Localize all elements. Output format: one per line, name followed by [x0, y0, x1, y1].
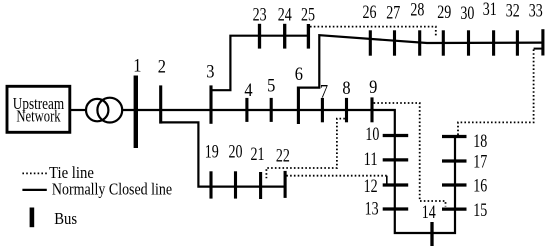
svg-text:33: 33 [529, 2, 543, 22]
main feeder line buses 1-9 [122, 110, 455, 233]
bus 27 [393, 30, 396, 55]
bus 21 [259, 172, 262, 199]
bus 18 [442, 135, 467, 138]
bus 15 [442, 208, 467, 211]
svg-text:20: 20 [229, 143, 243, 163]
svg-text:10: 10 [365, 125, 379, 145]
svg-text:16: 16 [473, 177, 487, 197]
bus 28 [418, 30, 421, 55]
branch bus6 to buses 26-33 [298, 35, 543, 87]
svg-text:4: 4 [244, 81, 252, 101]
bus 1 [134, 76, 138, 149]
bus 7 [321, 98, 324, 122]
svg-text:26: 26 [363, 3, 377, 23]
svg-text:31: 31 [483, 0, 497, 20]
svg-text:19: 19 [205, 143, 219, 163]
svg-text:28: 28 [410, 1, 424, 21]
bus 14 [430, 222, 433, 246]
bus 26 [369, 30, 372, 55]
legend normally closed sample [22, 189, 46, 191]
svg-text:5: 5 [267, 77, 275, 97]
svg-text:30: 30 [460, 4, 474, 24]
bus 30 [467, 30, 470, 55]
bus 19 [209, 171, 212, 198]
svg-text:14: 14 [422, 203, 436, 223]
svg-text:2: 2 [158, 57, 166, 77]
svg-text:Bus: Bus [54, 209, 77, 228]
bus 3 [209, 85, 212, 123]
bus 29 [442, 30, 445, 55]
tie line 12-22 [286, 175, 387, 177]
svg-text:15: 15 [473, 201, 487, 221]
svg-text:12: 12 [364, 177, 378, 197]
svg-text:22: 22 [276, 147, 290, 167]
bus 13 [383, 207, 409, 210]
bus 9 [370, 97, 373, 122]
svg-text:11: 11 [364, 150, 378, 170]
svg-text:27: 27 [386, 3, 400, 23]
bus 16 [442, 183, 467, 186]
svg-text:6: 6 [295, 65, 303, 85]
bus 10 [383, 134, 409, 137]
bus 22 [284, 171, 287, 198]
svg-text:7: 7 [320, 83, 328, 103]
tie line 18-33 [458, 49, 534, 135]
branch bus2 to buses 19-22 [161, 122, 286, 186]
svg-text:Network: Network [16, 107, 61, 126]
tie line 9-15 [374, 103, 446, 207]
svg-text:25: 25 [301, 6, 315, 26]
bus 8 [345, 98, 348, 122]
transformer T1 [86, 99, 108, 121]
bus 5 [270, 98, 273, 122]
legend tie line sample [22, 172, 48, 174]
bus 23 [258, 24, 261, 49]
svg-text:3: 3 [206, 62, 214, 82]
bus 6 [297, 87, 300, 125]
svg-text:1: 1 [133, 57, 141, 77]
svg-text:Normally Closed line: Normally Closed line [52, 180, 172, 199]
svg-text:24: 24 [278, 6, 292, 26]
bus 25 [307, 24, 310, 49]
svg-text:18: 18 [473, 132, 487, 152]
bus 20 [234, 171, 237, 198]
svg-text:23: 23 [253, 6, 267, 26]
Upstream Network box [7, 86, 70, 132]
svg-text:17: 17 [473, 153, 487, 173]
wire box to transformer [70, 109, 86, 111]
legend bus sample [30, 208, 35, 228]
bus 24 [283, 24, 286, 49]
bus 33 [541, 29, 544, 55]
bus 2 [159, 85, 162, 123]
svg-text:9: 9 [369, 78, 377, 98]
bus 4 [245, 98, 248, 122]
svg-text:29: 29 [437, 3, 451, 23]
bus 12 [383, 183, 409, 186]
bus 32 [516, 30, 519, 55]
bus 31 [492, 30, 495, 55]
svg-text:32: 32 [506, 2, 520, 22]
branch bus3 to buses 23-25 [211, 36, 309, 90]
svg-text:8: 8 [342, 79, 350, 99]
bus 11 [383, 158, 409, 161]
svg-text:21: 21 [251, 145, 265, 165]
tie line 8-21 [266, 119, 345, 179]
svg-text:13: 13 [365, 200, 379, 220]
tie line 25-29 [310, 27, 436, 38]
bus 17 [442, 159, 467, 162]
